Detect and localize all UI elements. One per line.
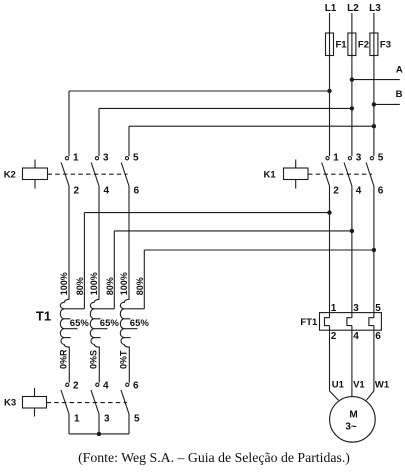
svg-text:3~: 3~ [345, 422, 357, 433]
svg-text:1: 1 [73, 153, 79, 164]
svg-text:4: 4 [104, 186, 110, 197]
svg-text:K2: K2 [4, 170, 16, 181]
svg-text:80%: 80% [105, 277, 115, 295]
svg-text:4: 4 [353, 331, 359, 342]
svg-text:M: M [349, 410, 357, 421]
svg-text:F3: F3 [380, 40, 391, 51]
svg-text:F2: F2 [358, 40, 369, 51]
svg-text:0%S: 0%S [89, 350, 99, 369]
svg-text:2: 2 [331, 331, 337, 342]
svg-text:T1: T1 [36, 309, 51, 324]
svg-text:80%: 80% [75, 277, 85, 295]
svg-text:(Fonte: Weg S.A. – Guia de Sel: (Fonte: Weg S.A. – Guia de Seleção de Pa… [78, 450, 350, 466]
svg-text:K3: K3 [4, 398, 16, 409]
svg-text:V1: V1 [353, 380, 365, 391]
svg-text:2: 2 [73, 381, 79, 392]
svg-text:3: 3 [103, 153, 109, 164]
svg-text:A: A [396, 65, 403, 76]
svg-text:100%: 100% [59, 272, 69, 295]
svg-text:W1: W1 [375, 380, 390, 391]
svg-text:3: 3 [104, 414, 110, 425]
svg-text:2: 2 [333, 186, 339, 197]
svg-text:65%: 65% [70, 318, 90, 329]
svg-text:K1: K1 [264, 170, 277, 181]
svg-text:L1: L1 [325, 3, 337, 14]
svg-text:65%: 65% [130, 318, 150, 329]
svg-text:6: 6 [375, 331, 381, 342]
svg-text:4: 4 [356, 186, 362, 197]
svg-text:3: 3 [353, 303, 359, 314]
svg-text:1: 1 [333, 153, 339, 164]
svg-text:1: 1 [331, 303, 337, 314]
svg-text:6: 6 [134, 186, 140, 197]
svg-text:0%R: 0%R [59, 349, 69, 369]
svg-text:4: 4 [103, 381, 109, 392]
svg-text:5: 5 [133, 153, 139, 164]
svg-text:100%: 100% [89, 272, 99, 295]
svg-text:6: 6 [133, 381, 139, 392]
svg-text:FT1: FT1 [300, 317, 318, 328]
svg-text:L2: L2 [347, 3, 359, 14]
svg-text:1: 1 [74, 414, 80, 425]
svg-text:65%: 65% [100, 318, 120, 329]
svg-text:U1: U1 [332, 380, 345, 391]
svg-text:B: B [396, 89, 403, 100]
svg-text:3: 3 [356, 153, 362, 164]
svg-text:5: 5 [134, 414, 140, 425]
svg-text:5: 5 [375, 303, 381, 314]
svg-text:80%: 80% [135, 277, 145, 295]
svg-text:0%T: 0%T [119, 350, 129, 369]
svg-text:100%: 100% [119, 272, 129, 295]
svg-text:6: 6 [378, 186, 384, 197]
svg-text:2: 2 [74, 186, 80, 197]
svg-text:5: 5 [378, 153, 384, 164]
svg-text:L3: L3 [369, 3, 381, 14]
svg-text:F1: F1 [336, 40, 348, 51]
